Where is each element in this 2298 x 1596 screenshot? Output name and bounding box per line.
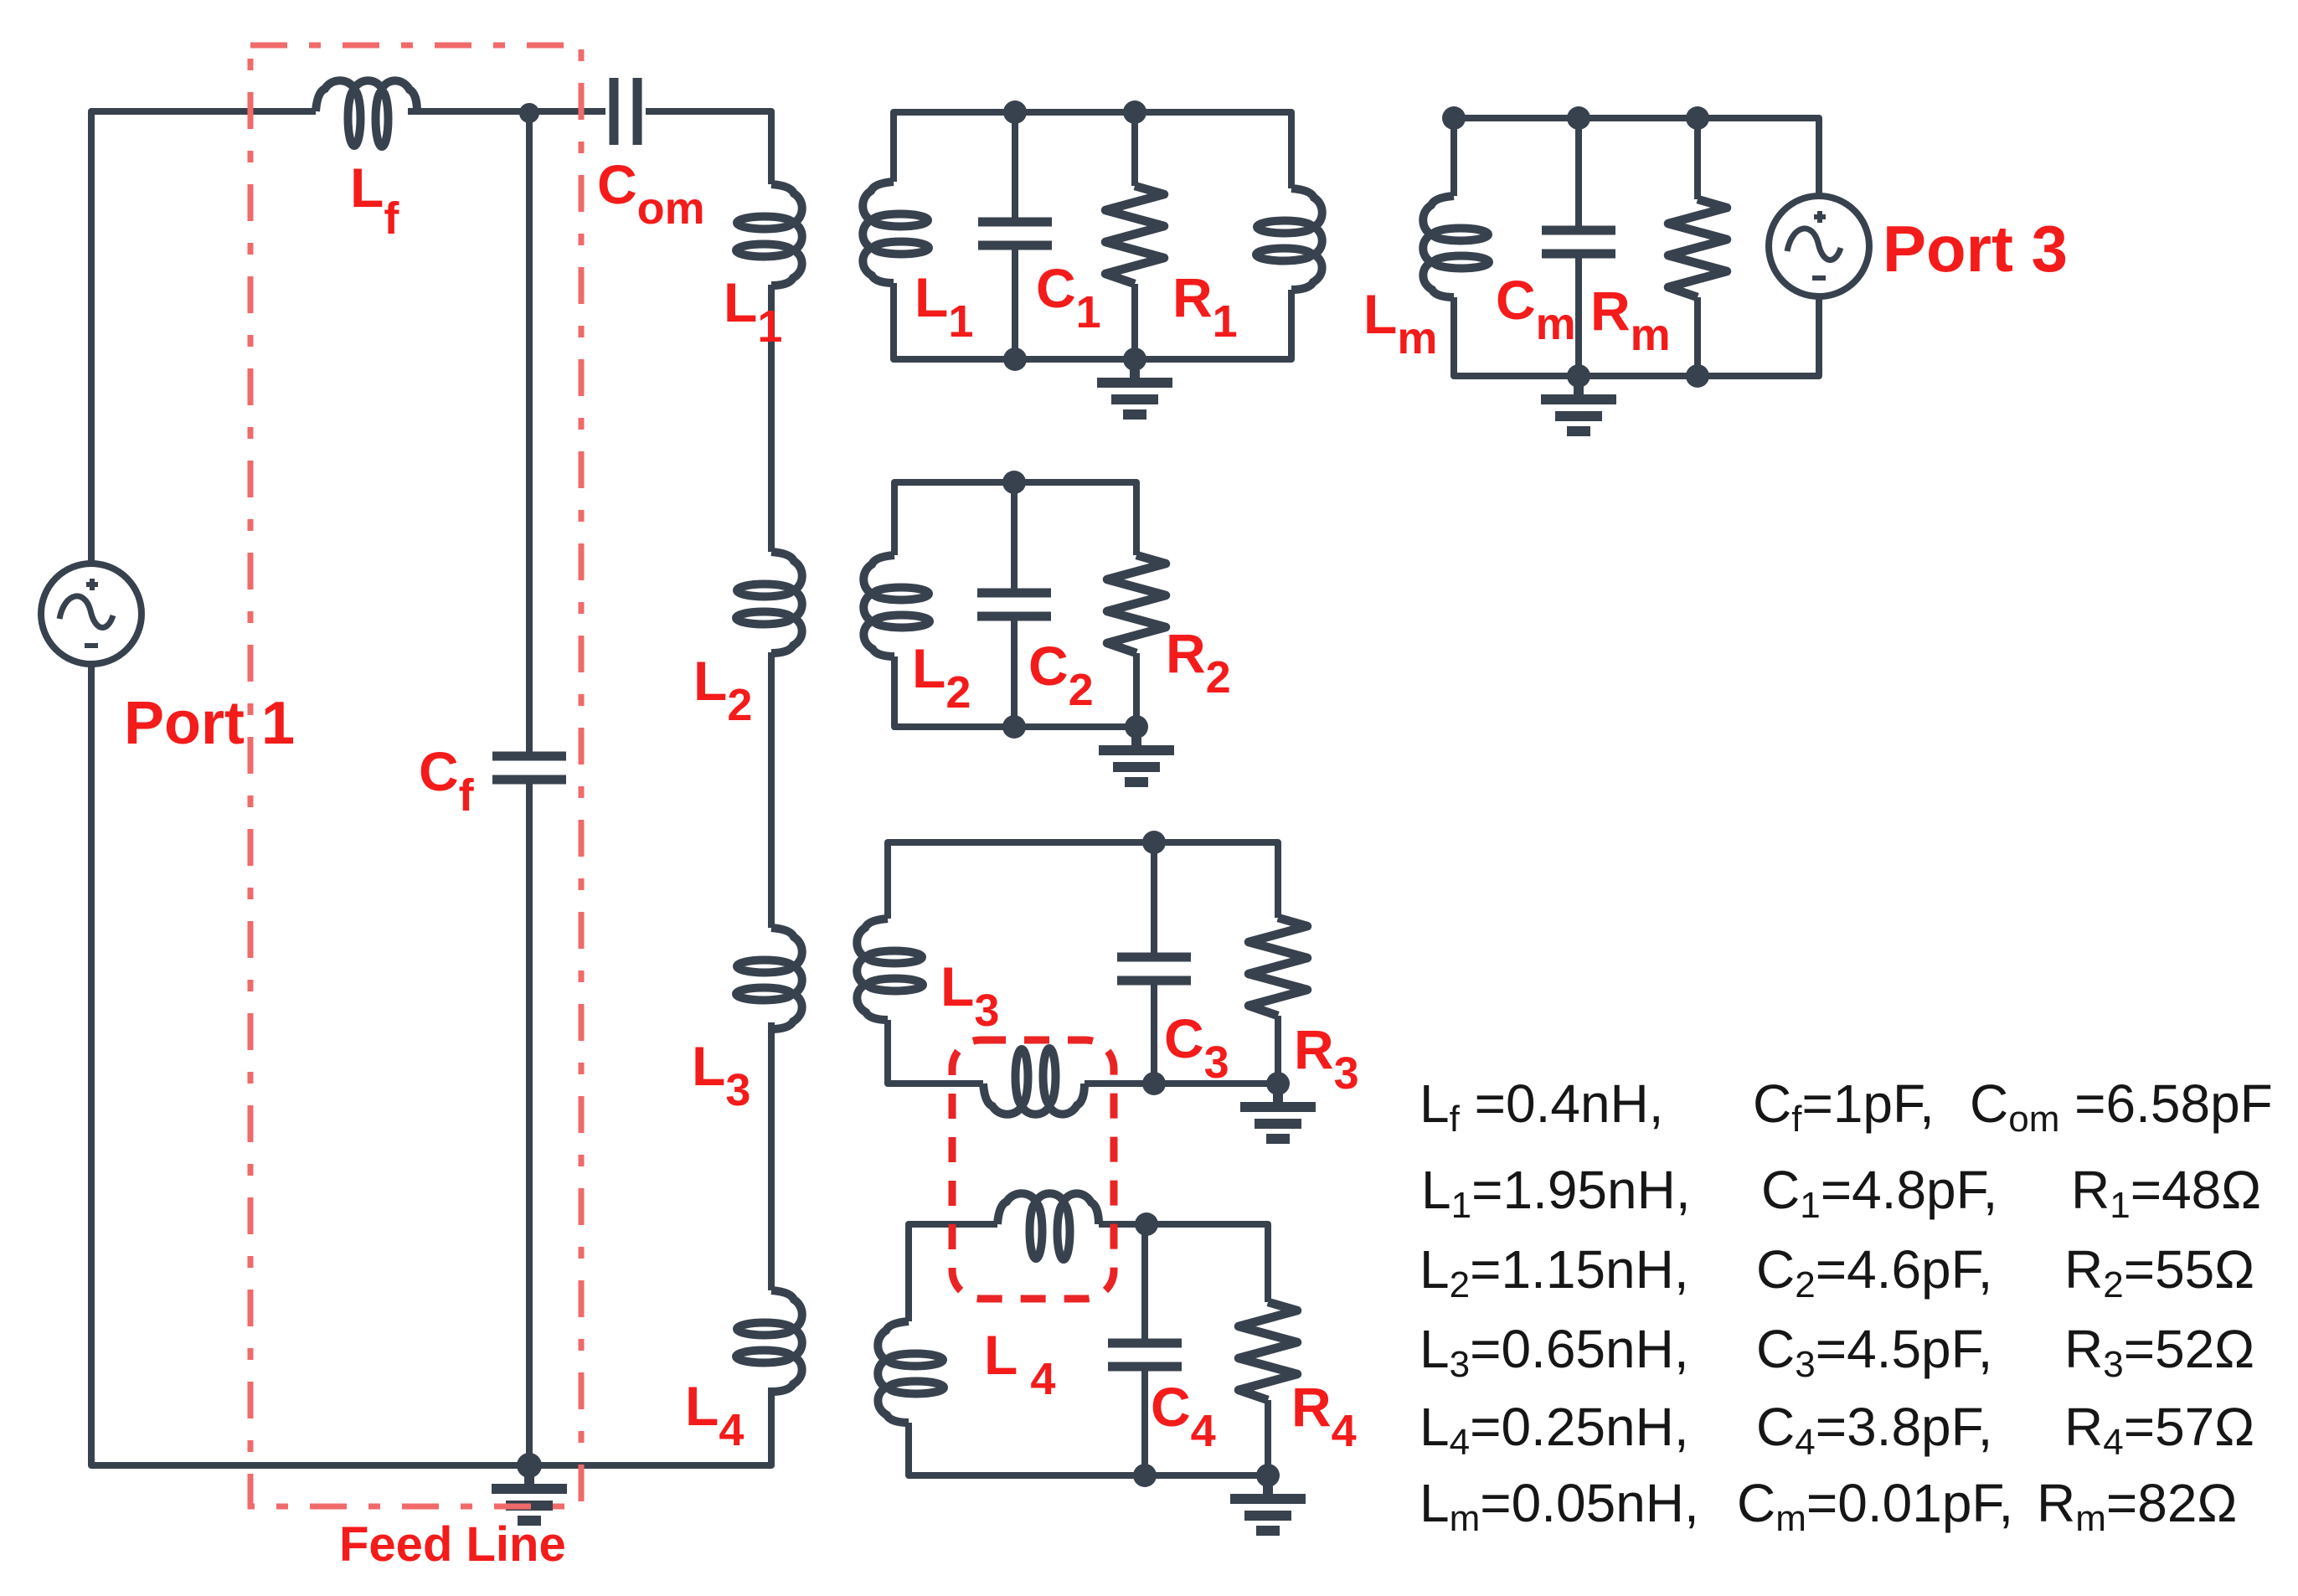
svg-text:Port 1: Port 1 [124, 690, 295, 757]
wire: port3 tank top rail [1454, 118, 1819, 198]
svg-text:C3=4.5pF,: C3=4.5pF, [1756, 1319, 1992, 1385]
capacitor C1 [978, 222, 1052, 245]
inductor L3 (tank3) [857, 919, 923, 1020]
svg-text:C2=4.6pF,: C2=4.6pF, [1756, 1239, 1992, 1305]
wire: C1 lower lead [1012, 245, 1018, 359]
junction: port3 tank bottom Cm [1567, 364, 1590, 388]
wire: C3 upper lead [1151, 842, 1157, 957]
wire: Lf to Com [408, 108, 605, 115]
resistor R1 [1105, 186, 1164, 284]
wire: tank2 bottom rail [894, 653, 1136, 727]
junction: port3 tank top Rm [1686, 106, 1709, 130]
junction: port3 tank bottom Rm [1686, 364, 1709, 388]
resistor R4 [1239, 1302, 1297, 1400]
wire: chain L2-L3 [768, 652, 775, 928]
wire: tank1 top rail [894, 112, 1291, 188]
wire: Cf upper lead [526, 113, 533, 756]
inductor L1 (series chain) [736, 184, 802, 286]
junction: port3 tank top Cm [1567, 106, 1590, 130]
node A: Cf tap junction [519, 103, 539, 123]
wire: C1 upper lead [1012, 112, 1018, 222]
junction: tank4 bottom C4 [1133, 1464, 1157, 1487]
wire: C4 upper lead [1141, 1224, 1148, 1343]
wire: chain L1-L2 [768, 285, 775, 552]
resistor R3 [1249, 918, 1307, 1016]
resistor Rm [1668, 199, 1727, 297]
wire: R1 lower lead [1131, 284, 1138, 359]
wire: port3 tank bottom rail [1454, 295, 1819, 376]
wire: C2 upper lead [1011, 482, 1018, 593]
wire: Rm lower lead [1694, 297, 1701, 376]
capacitor Cf [492, 756, 566, 780]
wire: chain L3-L4 [768, 1022, 775, 1290]
wire: Cm upper lead [1575, 118, 1582, 230]
junction: tank1 top R1 [1123, 100, 1146, 124]
wire: tank2 top rail [894, 482, 1136, 555]
feed line dashed boundary box [250, 45, 581, 1506]
wire: tank4 top right segment [1099, 1224, 1268, 1302]
svg-text:R3=52Ω: R3=52Ω [2064, 1319, 2254, 1385]
inductor Lf [316, 80, 417, 147]
inductor L1 (tank1) [863, 182, 929, 283]
wire: C3 lower lead [1151, 981, 1157, 1084]
wire: Rm upper lead [1694, 118, 1701, 199]
ground (tank1) [1097, 359, 1172, 414]
svg-text:Port 3: Port 3 [1883, 212, 2068, 286]
junction: tank2 top C2 [1002, 471, 1026, 494]
capacitor C2 [977, 593, 1051, 616]
junction: tank4 top [1135, 1212, 1158, 1236]
inductor (tank1 right coil) [1256, 188, 1322, 290]
wire: C4 lower lead [1141, 1367, 1148, 1475]
wire: Cm lower lead [1575, 254, 1582, 376]
capacitor C4 [1108, 1343, 1182, 1367]
voltage source Port 3 [1769, 196, 1869, 296]
node: feed ground junction [517, 1453, 542, 1478]
junction: tank3 bottom C3 [1142, 1072, 1166, 1095]
junction: tank3 bottom R3 [1266, 1072, 1290, 1095]
ground (tank3) [1240, 1084, 1316, 1139]
mutual inductance dashed box [952, 1040, 1114, 1299]
inductor: mutual coupling coil (tank4 side) [997, 1193, 1099, 1259]
svg-text:C1=4.8pF,: C1=4.8pF, [1761, 1160, 1997, 1226]
inductor L2 (series chain) [736, 552, 802, 653]
svg-text:R4=57Ω: R4=57Ω [2064, 1397, 2254, 1463]
svg-text:Rm=82Ω: Rm=82Ω [2037, 1473, 2237, 1539]
wire: tank3 top rail [888, 842, 1278, 919]
wire: Cf lower lead [526, 780, 533, 1465]
svg-text:R2=55Ω: R2=55Ω [2064, 1239, 2254, 1305]
ground (tank2) [1099, 727, 1174, 782]
voltage source Port 1 [41, 564, 142, 664]
junction: tank2 bottom R2 [1125, 715, 1148, 739]
wire: left vertical + bottom return (Port1 bottom lead) [91, 662, 771, 1465]
junction: port3 tank top left [1442, 106, 1466, 130]
wire: tank4 top left segment [909, 1224, 997, 1321]
junction: tank1 bottom R1 [1123, 348, 1146, 371]
svg-text:Feed Line: Feed Line [339, 1517, 566, 1572]
junction: tank1 top C1 [1003, 100, 1027, 124]
wire: C2 lower lead [1011, 616, 1018, 727]
wire: tank3 bottom left segment [888, 1020, 983, 1084]
inductor L4 (tank4) [878, 1321, 944, 1423]
inductor L4 (series chain) [736, 1290, 802, 1392]
inductor: mutual coupling coil (tank3 side) [983, 1048, 1085, 1115]
wire: Com to chain top corner [646, 111, 771, 184]
inductor Lm [1423, 196, 1489, 297]
wire: R1 upper lead [1131, 112, 1138, 186]
capacitor C3 [1117, 957, 1191, 981]
wire: tank1 bottom rail [894, 283, 1291, 359]
junction: tank1 bottom C1 [1003, 348, 1027, 371]
junction: tank3 top C3 [1142, 831, 1166, 854]
inductor L2 (tank2) [863, 555, 930, 656]
ground (port3 tank) [1541, 376, 1616, 431]
capacitor Com [614, 78, 637, 145]
wire: tank3 bottom right segment [1085, 1016, 1278, 1084]
junction: tank4 bottom R4 [1256, 1464, 1280, 1487]
resistor R2 [1107, 555, 1166, 653]
capacitor Cm [1542, 230, 1615, 254]
ground (tank4) [1230, 1475, 1306, 1531]
svg-text:Cf=1pF,: Cf=1pF, [1753, 1073, 1935, 1140]
svg-text:C4=3.8pF,: C4=3.8pF, [1756, 1397, 1992, 1463]
wire: tank4 bottom rail [909, 1400, 1268, 1475]
inductor L3 (series chain) [736, 928, 802, 1029]
ground (feed line) [492, 1465, 567, 1521]
junction: tank2 bottom C2 [1002, 715, 1026, 739]
wire: top feed + left vertical (Port1 top lead) [91, 111, 316, 565]
svg-text:R1=48Ω: R1=48Ω [2071, 1160, 2261, 1226]
